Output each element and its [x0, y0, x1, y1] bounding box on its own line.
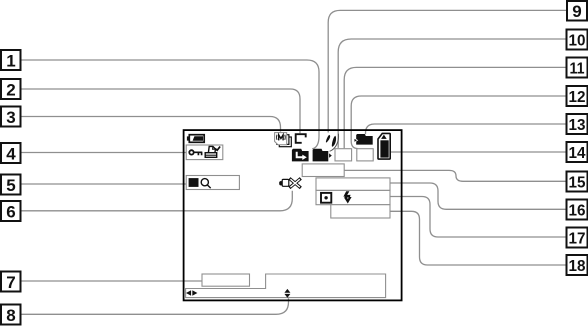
- svg-text:9: 9: [572, 2, 581, 21]
- svg-text:8: 8: [6, 306, 15, 325]
- svg-text:3: 3: [6, 108, 15, 127]
- svg-text:6: 6: [6, 203, 15, 222]
- svg-text:5: 5: [6, 176, 15, 195]
- svg-text:11: 11: [570, 61, 585, 78]
- svg-text:14: 14: [569, 145, 586, 162]
- svg-text:13: 13: [569, 117, 586, 134]
- svg-text:18: 18: [569, 258, 586, 275]
- svg-text:12: 12: [569, 89, 586, 106]
- svg-text:7: 7: [6, 273, 15, 292]
- svg-text:10: 10: [569, 33, 586, 50]
- svg-text:15: 15: [569, 175, 586, 192]
- svg-text:16: 16: [569, 203, 586, 220]
- svg-text:17: 17: [569, 231, 586, 248]
- svg-text:4: 4: [6, 145, 16, 164]
- svg-text:2: 2: [6, 81, 15, 100]
- svg-text:1: 1: [6, 52, 15, 71]
